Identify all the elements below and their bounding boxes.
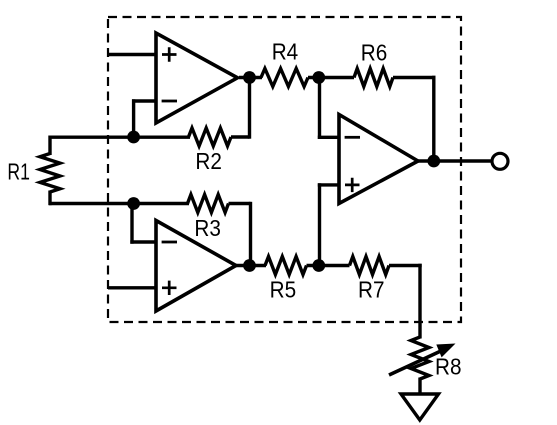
wire: node E vertical down to U3 - — [318, 78, 321, 140]
wire: node E to R6 — [330, 76, 354, 79]
resistor R6 — [354, 69, 393, 87]
wire: input to op-amp U1 + — [108, 53, 156, 56]
node A junction dot — [127, 131, 140, 144]
U1 minus mark — [162, 100, 177, 103]
node F junction dot — [312, 259, 325, 272]
U1 plus mark — [162, 47, 177, 61]
R8 arrow shaft — [389, 350, 443, 375]
R8 arrow head — [436, 344, 455, 358]
op-amp U2 — [156, 221, 236, 312]
wire: node F vertical up to U3 + — [318, 183, 321, 265]
resistor R2 — [189, 128, 232, 146]
op-amp U3 — [339, 115, 418, 204]
wire: input to U2 + — [108, 286, 156, 289]
wire: R2 right to vertical — [231, 135, 250, 138]
wire: R1 bottom stub — [48, 191, 51, 206]
ground symbol — [401, 394, 439, 420]
wire: U1 - input horizontal — [132, 99, 156, 102]
resistor R3 — [188, 195, 229, 213]
wire: R1 top stub — [48, 136, 51, 156]
wire: R7 right horizontal — [389, 264, 422, 267]
wire: U2 - input vertical from node B — [130, 204, 133, 244]
node E junction dot — [312, 71, 325, 84]
svg-text:R4: R4 — [272, 38, 299, 64]
svg-text:R6: R6 — [361, 39, 388, 65]
wire: node A rail to R1 top — [49, 135, 190, 138]
wire: R6 right horizontal — [393, 76, 436, 79]
resistor R5 — [265, 257, 307, 275]
wire: node B rail from R1 bottom — [49, 202, 189, 205]
svg-text:R5: R5 — [270, 277, 297, 303]
resistor R7 — [350, 257, 390, 275]
op-amp U1 — [156, 33, 238, 123]
wire: U3 output to open terminal — [418, 159, 491, 162]
node C junction dot (U1 output) — [243, 71, 256, 84]
wire: node F to R7 — [330, 264, 350, 267]
node D junction dot (U2 output) — [243, 259, 256, 272]
svg-text:R3: R3 — [194, 215, 221, 241]
wire: R3 right to vertical — [229, 202, 251, 205]
resistor R8 (variable) — [411, 337, 429, 379]
wire: U1 - input vertical to node A — [132, 99, 135, 137]
U3 plus mark — [345, 178, 360, 192]
wire: R8 to ground — [418, 378, 421, 397]
output node junction dot — [427, 155, 440, 168]
wire: vertical down to R8 — [418, 264, 421, 339]
svg-text:R1: R1 — [7, 159, 30, 185]
dashed boundary box — [108, 17, 461, 322]
svg-text:R2: R2 — [195, 148, 222, 174]
resistor R1 — [40, 154, 60, 193]
output open circle terminal — [492, 153, 508, 169]
svg-text:R7: R7 — [358, 277, 385, 303]
U2 minus mark — [162, 241, 177, 244]
svg-text:R8: R8 — [435, 354, 462, 380]
wire: U2 - input horizontal — [130, 240, 156, 243]
resistor R4 — [261, 69, 308, 87]
wire: R6 vertical down to output node — [432, 76, 435, 161]
wire: U1 output to node C — [239, 76, 262, 79]
wire: R2 vertical up to node C — [248, 78, 251, 139]
wire: U3 - input horizontal — [318, 136, 339, 139]
wire: U2 output to node D — [236, 264, 266, 267]
wire: R5 to node F — [307, 264, 331, 267]
U2 plus mark — [162, 281, 177, 295]
node B junction dot — [127, 197, 140, 210]
wire: U3 + input horizontal — [318, 183, 339, 186]
wire: R3 vertical down to node D — [249, 202, 252, 266]
U3 minus mark — [345, 136, 360, 139]
wire: R4 to node E — [308, 76, 330, 79]
